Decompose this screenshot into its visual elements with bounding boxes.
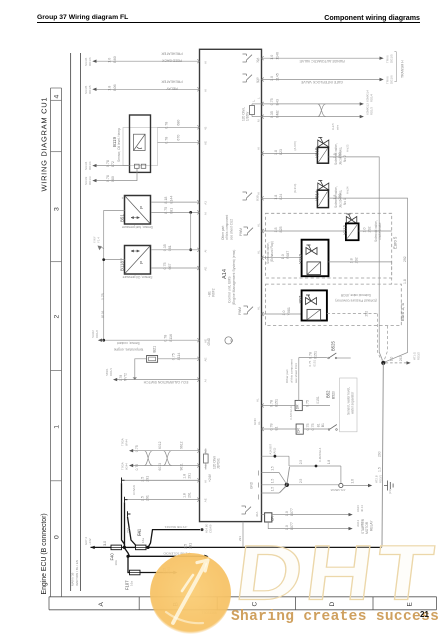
solenoid valve Y113 xyxy=(346,217,357,224)
wire B21 signal xyxy=(158,358,200,360)
terminal circle xyxy=(339,483,343,487)
dashed box Euro 5 xyxy=(266,213,392,278)
watermark slogan xyxy=(231,609,439,625)
wire Y113 out xyxy=(359,230,392,232)
twist symbol out xyxy=(318,104,326,117)
wire ignition feed 1 xyxy=(125,479,200,481)
relay CR starter xyxy=(265,513,272,522)
watermark arrow xyxy=(166,560,208,623)
page header right xyxy=(0,14,420,22)
wire PWM to Y112 xyxy=(262,257,302,259)
wire main ground bus down xyxy=(382,363,384,548)
node bus arrow xyxy=(98,246,103,251)
wire CR out 1 xyxy=(272,514,351,516)
page header left xyxy=(37,14,128,21)
wire preheater relay xyxy=(97,88,200,90)
diode box DR1 xyxy=(295,400,302,410)
sensor B118 oil pressure xyxy=(125,246,151,275)
dashed drop Euro box xyxy=(384,326,387,360)
watermark circle with arrow xyxy=(150,553,231,634)
inline connector power feed 3 xyxy=(128,511,131,517)
wire main battery feed with fuses xyxy=(91,546,112,548)
wire to Y91A xyxy=(262,197,318,199)
ECU control unit main box A14 xyxy=(200,49,262,521)
left measuring ruler xyxy=(50,88,52,597)
wire junction bus B51-B118 xyxy=(190,212,192,249)
diode box DR2 xyxy=(296,424,303,434)
relay contact PWM2 inside ECU xyxy=(244,306,248,314)
wire gnd 3 to star xyxy=(262,487,286,493)
wire drop to terminal xyxy=(340,466,342,483)
fuse F107 circuit xyxy=(128,556,130,572)
wire B118 supply xyxy=(151,267,200,269)
wire to B525 xyxy=(299,357,327,359)
wire junction run right xyxy=(289,465,341,467)
wire CAN twisted pair 1 xyxy=(131,450,200,452)
wire B119 supply out xyxy=(94,168,137,180)
wire sensor feed A62 xyxy=(262,455,290,457)
wire Y112 out xyxy=(329,261,392,263)
wire ignition feed 2 xyxy=(128,499,200,501)
wire B119 signal 1 xyxy=(158,126,200,128)
wire B119 ground out xyxy=(94,165,130,167)
wire ECU feed from fuse rail xyxy=(242,522,244,548)
sensor B52 outline xyxy=(340,378,357,432)
wire star to riser diagonal xyxy=(287,467,290,485)
wire PWM to Y113 xyxy=(262,230,346,232)
wire battery feed drop 1 xyxy=(122,483,125,547)
wire B21 left leg xyxy=(135,359,147,380)
resistor 120 Ohm CAN terminator inside ECU xyxy=(250,106,255,115)
wire common sensor ground bus to ECU xyxy=(104,339,200,341)
wire range automatic valve xyxy=(262,57,380,59)
relay contact CR drive inside ECU xyxy=(242,506,246,514)
relay contact PWM1 inside ECU xyxy=(244,227,248,235)
wire gnd 1 to star xyxy=(262,473,286,483)
wire DR circuit lower xyxy=(262,428,297,430)
wire to Y91B xyxy=(262,153,318,155)
wire junction to transmission xyxy=(386,362,409,364)
wire battery feed drop 2 xyxy=(125,502,130,556)
wire B51 signal with junction xyxy=(151,211,200,213)
relay contact K1 inside ECU xyxy=(243,54,247,62)
node main ground junction xyxy=(381,361,385,365)
wire gate interlock valve xyxy=(262,79,380,81)
wire MAIN/39 bus xyxy=(70,53,72,591)
wire B119 signal 2 xyxy=(158,141,200,143)
solenoid valve Y07 xyxy=(302,290,327,320)
sensor B119 oil level/temp xyxy=(123,128,158,166)
dashed box Euro 3,4 xyxy=(266,284,402,326)
wire DR2 to B52 lower xyxy=(303,428,330,430)
wire CR out 2 xyxy=(268,522,350,529)
page number 21 xyxy=(420,610,429,619)
bottom reference ruler band xyxy=(49,596,437,598)
sensor B51 fuel pressure xyxy=(125,196,151,225)
node star ground junction xyxy=(285,483,289,487)
wire PWM to Y07 xyxy=(262,313,302,315)
relay contact K2 inside ECU xyxy=(243,74,247,82)
ground symbol chassis xyxy=(384,481,393,491)
wire Y91B return xyxy=(329,157,383,361)
svg-text:DHT: DHT xyxy=(231,530,439,617)
wire battery feed drop 3 xyxy=(128,517,136,548)
node G (circled) xyxy=(225,337,232,344)
wire DR1 to B52 upper xyxy=(302,405,330,407)
watermark DHT letters xyxy=(231,530,439,617)
switch B525 water in fuel xyxy=(328,357,330,359)
wire run to starter bus xyxy=(146,546,382,548)
solenoid valve Y112 xyxy=(302,240,329,277)
wire B118 signal xyxy=(151,249,200,251)
wire branch solenoid feed xyxy=(130,555,208,557)
solenoid valve Y91B xyxy=(318,140,329,147)
wire riser to junction xyxy=(288,456,290,466)
transmission harness bracket xyxy=(394,52,396,82)
wire CAN twisted pair 2 xyxy=(131,465,200,467)
switch B52 water level xyxy=(328,429,330,431)
wire DR1 riser to B525 xyxy=(298,358,300,401)
wire gnd 2 to star xyxy=(262,484,285,486)
wire DR circuit upper xyxy=(262,405,296,407)
wire B51 to common bus xyxy=(104,211,125,341)
sensor B21 coolant temperature xyxy=(147,356,158,363)
wire IGNITION/BL/EN bus xyxy=(80,53,82,591)
wire CAN twisted pair out 2 xyxy=(262,116,362,118)
wire Y07 out dashed xyxy=(327,313,378,315)
wire branch to ECU relay xyxy=(148,530,200,548)
twist symbols xyxy=(145,451,153,466)
wire preheater feedback xyxy=(97,60,200,62)
wire B51 supply xyxy=(151,201,200,203)
dashed drop Y07 xyxy=(378,314,382,361)
inline connector power feed 2 xyxy=(125,497,128,503)
wire terminal to battery arrow xyxy=(343,485,370,487)
wire Y91A return long run xyxy=(329,198,408,362)
relay contact K3 inside ECU xyxy=(243,192,247,200)
wire Y112 dashed link xyxy=(391,262,393,284)
wire ECU calibration switch xyxy=(115,379,200,381)
resistor 120 Ohm J1939 inside ECU xyxy=(204,454,209,463)
wire B118 to common bus xyxy=(104,259,125,261)
inline connector power feed 1 xyxy=(122,478,125,484)
wire star to terminal xyxy=(289,484,339,486)
header rule xyxy=(37,22,420,23)
solenoid valve Y91A xyxy=(318,183,329,190)
wire CAN twisted pair out 1 xyxy=(262,103,362,105)
